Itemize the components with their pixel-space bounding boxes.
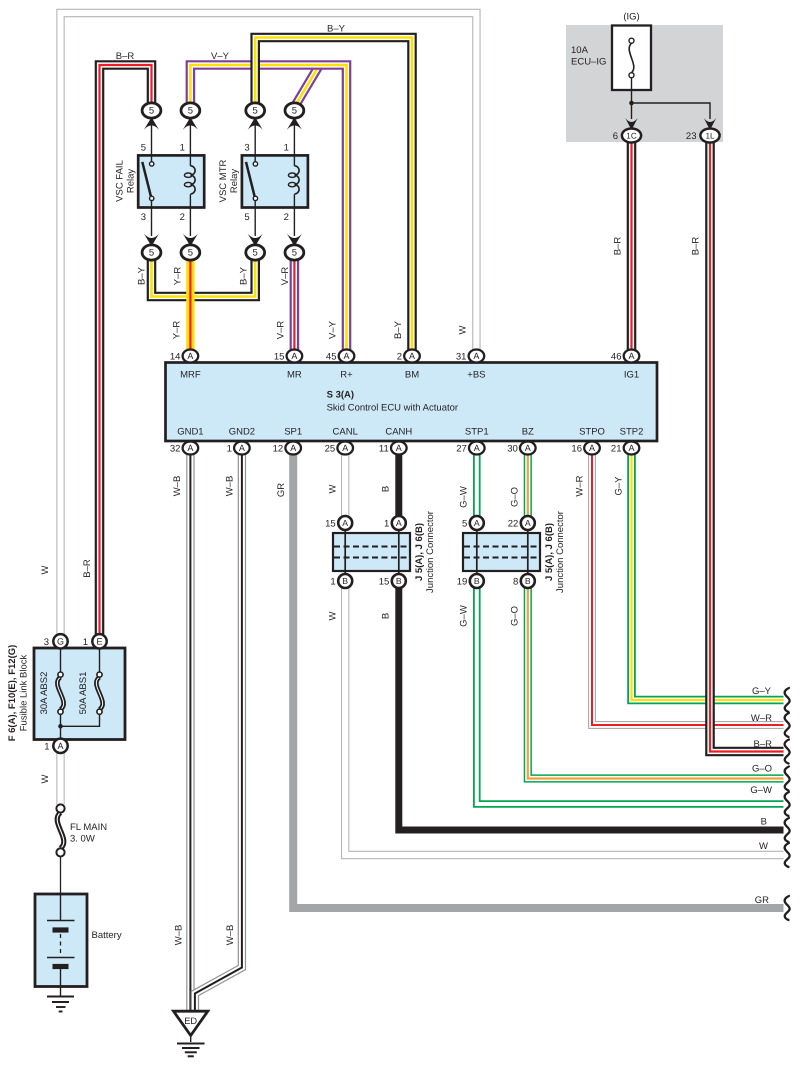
wire W battery positive loop (fusible block 3G up over top to +BS) [61,13,477,634]
connector 5 below VSC MTR relay pin 2 [293,208,295,237]
relay K1 coil [189,155,191,166]
svg-text:2: 2 [180,212,185,223]
ECU top pin 46 IG1 [624,350,640,363]
svg-text:16: 16 [571,444,582,455]
svg-text:Skid Control ECU with Actuator: Skid Control ECU with Actuator [327,403,458,414]
svg-text:5: 5 [292,248,297,259]
wire B-R fusible block 1E to VSC FAIL relay pin 5 [100,65,152,634]
ECU bottom pin 32 GND1 [183,442,199,455]
svg-text:5: 5 [188,248,193,259]
svg-text:A: A [409,351,415,361]
wire V-Y branch to VSC MTR relay pin 1 [294,67,318,108]
svg-text:CANL: CANL [333,427,358,438]
wire G-W ECU STP1 through junction connector to right edge [477,454,784,804]
svg-text:GR: GR [755,895,769,906]
svg-text:A: A [628,351,634,361]
svg-text:B–Y: B–Y [239,266,250,285]
ECU bottom pin 11 CANH [391,442,407,455]
connector 5 below VSC MTR relay pin 5 [254,208,256,237]
svg-text:W: W [40,565,51,574]
svg-text:B–R: B–R [116,51,135,62]
svg-text:VSC FAIL: VSC FAIL [115,160,126,202]
ECU top pin 2 BM [404,350,420,363]
svg-text:A: A [396,443,402,453]
svg-text:6: 6 [613,131,618,142]
svg-text:5: 5 [149,248,154,259]
svg-text:MRF: MRF [180,370,201,381]
continuation mark G-O [785,767,790,791]
svg-text:3: 3 [44,637,49,648]
svg-text:A: A [187,351,193,361]
svg-text:5: 5 [292,106,297,117]
svg-text:8: 8 [513,577,518,588]
svg-text:B: B [381,486,392,492]
svg-text:IG1: IG1 [624,370,639,381]
wire G-O ECU BZ through junction connector to right edge [528,454,784,779]
svg-text:B–Y: B–Y [393,320,404,339]
fusible link 50A ABS1 [99,649,101,673]
svg-text:19: 19 [457,577,468,588]
svg-text:Y–R: Y–R [172,321,183,340]
svg-text:3: 3 [141,212,146,223]
wire W-B ECU GND1 to ground ED [186,454,194,1011]
svg-text:45: 45 [326,352,337,363]
svg-text:15: 15 [325,519,336,530]
svg-text:5: 5 [253,248,258,259]
relay K1 switch contact [151,155,153,162]
svg-text:W–B: W–B [173,925,184,946]
svg-text:G: G [57,637,64,647]
continuation mark B [785,818,790,842]
svg-text:A: A [474,518,480,528]
svg-text:10A: 10A [571,45,589,56]
svg-text:G–Y: G–Y [614,476,625,496]
svg-text:3: 3 [244,143,249,154]
svg-text:B: B [761,817,767,828]
svg-text:21: 21 [611,444,622,455]
connector 5 below VSC FAIL relay pin 2 [189,208,191,237]
junction connector pass-through pin 22A/8B [527,529,529,575]
svg-text:15: 15 [274,352,285,363]
wire FL MAIN to battery [60,857,62,895]
fusible link block box F6(A),F10(E),F12(G) [34,648,125,740]
svg-text:12: 12 [273,444,284,455]
ground symbol below battery [47,996,74,998]
svg-text:Y–R: Y–R [173,267,184,286]
svg-text:V–Y: V–Y [211,51,230,62]
wire B-Y VSC MTR relay pin 3 to ECU BM [255,38,412,351]
svg-text:W–R: W–R [575,475,586,496]
svg-text:1: 1 [330,577,335,588]
svg-text:G–W: G–W [459,605,470,627]
svg-text:W–B: W–B [172,476,183,497]
wire B ECU CANH through junction connector to right edge [399,454,784,830]
ECU bottom pin 30 BZ [520,442,536,455]
wire fuse output to connectors 1C and 1L [631,78,633,119]
svg-text:11: 11 [379,444,389,455]
continuation mark W-R [785,713,790,737]
battery box [35,894,87,987]
svg-text:23: 23 [686,131,697,142]
ECU top pin 14 MRF [183,350,199,363]
svg-text:J 5(A), J 6(B): J 5(A), J 6(B) [414,523,425,581]
wire W ECU CANL through junction connector to right edge [345,454,783,855]
continuation mark GR [785,896,790,920]
junction dot in fusible link block [58,724,63,729]
svg-text:1: 1 [284,143,289,154]
fuse element symbol [629,43,634,72]
relay K1 VSC FAIL Relay box [138,155,204,207]
svg-text:A: A [396,518,402,528]
svg-text:A: A [343,351,349,361]
svg-text:GR: GR [276,483,287,497]
svg-text:E: E [96,637,102,647]
svg-text:GND1: GND1 [177,427,203,438]
wire V-Y relay coil feed to ECU R+ [190,65,346,350]
svg-text:SP1: SP1 [284,427,302,438]
svg-text:STP2: STP2 [620,427,644,438]
fusible link block pin 3 G [53,634,67,648]
svg-text:B: B [342,576,348,586]
svg-text:1: 1 [44,742,49,753]
svg-text:A: A [342,443,348,453]
ECU bottom pin 1 GND2 [234,442,250,455]
svg-text:2: 2 [284,212,289,223]
svg-text:B–R: B–R [82,559,93,578]
ECU bottom pin 12 SP1 [285,442,301,455]
relay K2 coil [293,155,295,166]
continuation mark G-W [785,792,790,816]
connector 1L [704,118,716,130]
svg-text:F 6(A), F10(E), F12(G): F 6(A), F10(E), F12(G) [7,645,18,742]
fusible link block pin 1 E [92,634,106,648]
junction connector pass-through pin 15A/1B [344,529,346,575]
wire W-R ECU STPO to right edge [592,454,784,725]
junction dot fuse output [629,101,634,106]
svg-text:G–W: G–W [750,785,772,796]
svg-text:Relay: Relay [126,169,137,194]
wire V-R VSC MTR relay pin 2 to ECU MR [290,259,300,350]
svg-text:BM: BM [405,370,419,381]
svg-text:5: 5 [253,106,258,117]
svg-text:50A ABS1: 50A ABS1 [78,672,89,715]
connector 5 above VSC FAIL relay pin 1 [189,120,191,155]
svg-text:W: W [759,841,768,852]
svg-text:A: A [525,443,531,453]
svg-text:14: 14 [170,352,181,363]
svg-text:W–B: W–B [225,476,236,497]
relay K2 switch contact [254,155,256,162]
svg-text:(IG): (IG) [623,12,639,23]
svg-text:ECU–IG: ECU–IG [571,57,606,68]
svg-text:G–O: G–O [510,487,521,507]
svg-text:Relay: Relay [229,169,240,194]
svg-text:30: 30 [507,444,518,455]
svg-text:A: A [628,443,634,453]
svg-text:GND2: GND2 [229,427,255,438]
svg-text:1C: 1C [626,132,637,141]
svg-text:2: 2 [397,352,402,363]
relay K2 VSC MTR Relay box [242,155,308,207]
svg-text:R+: R+ [340,370,353,381]
svg-text:W–B: W–B [225,925,236,946]
wire Y-R VSC FAIL relay pin 2 to ECU MRF [186,259,194,350]
svg-text:V–R: V–R [280,267,291,286]
ECU top pin 45 R+ [339,350,355,363]
svg-text:5: 5 [462,519,467,530]
connector 5 above VSC MTR relay pin 3 [254,120,256,155]
svg-text:V–R: V–R [276,321,287,340]
svg-text:22: 22 [508,519,519,530]
svg-text:W–R: W–R [751,713,772,724]
ECU bottom pin 25 CANL [337,442,353,455]
svg-text:Fusible Link Block: Fusible Link Block [18,654,29,731]
svg-text:5: 5 [188,106,193,117]
ECU top pin 31 +BS [469,350,485,363]
svg-text:A: A [473,351,479,361]
svg-text:W: W [328,611,339,620]
svg-text:VSC MTR: VSC MTR [218,159,229,202]
svg-text:G–W: G–W [459,486,470,508]
svg-text:B–R: B–R [754,739,773,750]
svg-text:STP1: STP1 [465,427,489,438]
svg-text:3. 0W: 3. 0W [70,834,95,845]
svg-text:46: 46 [611,352,622,363]
svg-text:G–O: G–O [752,764,772,775]
ECU bottom pin 21 STP2 [624,442,640,455]
svg-text:A: A [525,518,531,528]
svg-text:32: 32 [170,444,181,455]
svg-text:STPO: STPO [579,427,605,438]
svg-text:CANH: CANH [385,427,412,438]
svg-text:A: A [239,443,245,453]
svg-text:G–Y: G–Y [752,686,772,697]
continuation mark B-R [785,740,790,764]
continuation mark G-Y [785,688,790,712]
svg-text:Junction Connector: Junction Connector [555,511,566,593]
svg-text:V–Y: V–Y [328,320,339,339]
svg-text:5: 5 [149,106,154,117]
svg-text:FL MAIN: FL MAIN [70,822,107,833]
svg-text:1: 1 [227,444,232,455]
svg-text:A: A [291,351,297,361]
connector 5 above VSC FAIL relay pin 5 [151,120,153,155]
junction connector internal bus (dashed) [334,547,409,558]
ground ED triangle [174,1011,208,1035]
svg-text:1: 1 [83,637,88,648]
svg-text:A: A [589,443,595,453]
svg-text:BZ: BZ [522,427,534,438]
junction connector pass-through pin 5A/19B [476,529,478,575]
svg-text:Junction Connector: Junction Connector [425,511,436,593]
wire B-R fuse 1L to right edge (drawn over G-Y and W-R) [710,140,784,752]
junction connector J5(A)/J6(B) box [333,533,410,571]
ECU bottom pin 27 STP1 [469,442,485,455]
svg-text:B–Y: B–Y [327,24,346,35]
svg-text:A: A [342,518,348,528]
fusible link 30A ABS2 [60,649,62,673]
connector 1C [625,118,637,130]
svg-text:+BS: +BS [467,370,485,381]
svg-text:G–O: G–O [510,606,521,626]
svg-text:A: A [187,443,193,453]
wire B-Y relay lower link (VSC FAIL pin 3 to VSC MTR pin 5) [152,259,256,297]
battery internal symbol [60,894,62,921]
svg-text:27: 27 [456,444,467,455]
svg-text:15: 15 [379,577,390,588]
wire W fusible block 1A to FL MAIN [56,752,64,804]
svg-text:W: W [328,484,339,493]
svg-text:1L: 1L [705,132,715,141]
svg-text:Battery: Battery [92,930,122,941]
svg-text:B: B [525,576,531,586]
svg-text:A: A [57,741,63,751]
junction connector J5(A)/J6(B) box [463,533,540,571]
svg-text:B–R: B–R [613,237,624,256]
svg-text:S 3(A): S 3(A) [327,390,354,401]
svg-text:B: B [474,576,480,586]
svg-text:1: 1 [180,143,185,154]
svg-text:1: 1 [384,519,389,530]
svg-text:MR: MR [287,370,302,381]
connector 5 above VSC MTR relay pin 1 [293,120,295,155]
ECU S 3(A) Skid Control ECU with Actuator box [166,363,658,442]
svg-text:A: A [474,443,480,453]
wire G-Y ECU STP2 to right edge [632,454,784,700]
svg-text:31: 31 [456,352,467,363]
svg-text:30A ABS2: 30A ABS2 [39,672,50,715]
fusible link block pin 1 A [53,739,67,753]
svg-text:B–Y: B–Y [137,266,148,285]
svg-text:W: W [40,774,51,783]
svg-text:J 5(A), J 6(B): J 5(A), J 6(B) [544,523,555,581]
wire W-B ECU GND2 to ground ED [195,454,242,1011]
svg-text:A: A [290,443,296,453]
svg-text:W: W [458,325,469,334]
fusible link FL MAIN 3.0W [57,813,64,849]
connector 5 below VSC FAIL relay pin 3 [151,208,153,237]
svg-text:B: B [396,576,402,586]
continuation mark W [785,843,790,867]
svg-text:25: 25 [325,444,336,455]
ignition fuse block gray panel [566,25,723,142]
svg-text:ED: ED [184,1016,197,1026]
ECU top pin 15 MR [287,350,303,363]
junction connector internal bus (dashed) [464,547,539,558]
ECU bottom pin 16 STPO [584,442,600,455]
wire GR ECU SP1 to right edge [293,454,783,908]
svg-text:5: 5 [244,212,249,223]
svg-text:B–R: B–R [691,237,702,256]
svg-text:B: B [381,613,392,619]
svg-text:5: 5 [141,143,146,154]
junction connector pass-through pin 1A/15B [398,529,400,575]
fuse 10A ECU-IG box [612,26,651,91]
ground ED hatching [190,1037,192,1043]
wire B-R fuse 1C to ECU IG1 [627,140,637,350]
